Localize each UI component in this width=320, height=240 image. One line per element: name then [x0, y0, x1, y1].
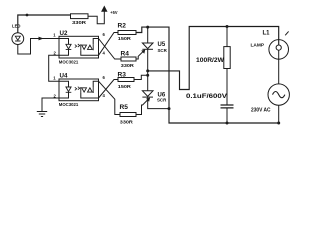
- svg-text:4: 4: [103, 93, 106, 98]
- svg-text:6: 6: [103, 32, 106, 37]
- svg-text:+5V: +5V: [110, 10, 118, 16]
- svg-text:330R: 330R: [121, 63, 135, 68]
- svg-text:SCR: SCR: [157, 97, 167, 102]
- svg-text:6: 6: [103, 75, 106, 80]
- svg-text:330R: 330R: [72, 20, 87, 25]
- svg-text:R2: R2: [118, 23, 127, 30]
- svg-text:230V AC: 230V AC: [251, 108, 271, 114]
- svg-text:U4: U4: [60, 73, 68, 80]
- svg-text:330R: 330R: [120, 120, 134, 125]
- svg-text:150R: 150R: [118, 84, 132, 89]
- svg-text:MOC3021: MOC3021: [59, 59, 79, 65]
- svg-text:L1: L1: [263, 31, 271, 37]
- svg-text:LED: LED: [12, 24, 21, 30]
- svg-text:R3: R3: [118, 72, 127, 79]
- svg-text:1: 1: [53, 75, 56, 80]
- svg-text:0.1uF/600V: 0.1uF/600V: [186, 93, 228, 100]
- svg-text:LAMP: LAMP: [251, 43, 265, 49]
- svg-text:MOC3021: MOC3021: [59, 102, 79, 108]
- svg-text:R4: R4: [121, 51, 130, 58]
- svg-text:1: 1: [53, 33, 56, 38]
- svg-text:150R: 150R: [118, 36, 132, 41]
- svg-text:R5: R5: [120, 104, 129, 111]
- svg-text:U2: U2: [60, 30, 68, 37]
- svg-text:SCR: SCR: [158, 48, 168, 53]
- svg-text:100R/2W: 100R/2W: [196, 57, 225, 64]
- svg-text:4: 4: [103, 50, 106, 55]
